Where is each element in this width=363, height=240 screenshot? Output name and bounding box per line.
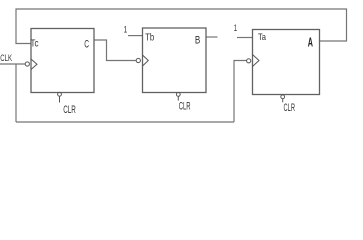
svg-text:CLK: CLK xyxy=(0,53,12,63)
svg-text:CLR: CLR xyxy=(63,104,76,116)
wire: constant 1 to U2 T input xyxy=(128,35,143,37)
clock bubble U2 xyxy=(136,58,140,62)
wire: constant 1 to U3 T input xyxy=(237,37,253,39)
flip-flop U1 (Tc) body xyxy=(31,29,94,93)
clear bubble U3 xyxy=(281,95,285,99)
svg-text:Tb: Tb xyxy=(145,33,154,44)
clear stem U2 xyxy=(177,96,179,100)
flip-flop U3 (Ta) body xyxy=(253,30,320,95)
svg-text:CLR: CLR xyxy=(179,101,191,113)
wire: feedback from A output to Tc input (top) xyxy=(16,9,347,44)
svg-text:C: C xyxy=(84,38,89,50)
svg-text:1: 1 xyxy=(124,25,128,35)
flip-flop U2 (Tb) body xyxy=(143,28,207,93)
svg-text:Ta: Ta xyxy=(258,32,267,43)
clock bubble U3 xyxy=(247,59,251,63)
clock edge triangle U3 xyxy=(253,55,260,67)
wire: CLK branch down to bottom bus xyxy=(15,64,17,122)
svg-text:B: B xyxy=(195,35,200,47)
clear stem U3 xyxy=(282,99,284,103)
svg-text:1: 1 xyxy=(234,23,237,33)
wire: bottom bus xyxy=(16,121,234,123)
wire: bus up to U3 clock xyxy=(234,61,247,123)
svg-text:Tc: Tc xyxy=(31,39,39,50)
svg-text:A: A xyxy=(308,34,314,49)
clock edge triangle U2 xyxy=(143,55,149,66)
clear bubble U2 xyxy=(176,93,180,97)
clock bubble U1 xyxy=(25,62,29,66)
clear stem U1 xyxy=(59,96,61,102)
wire: B output stub xyxy=(206,36,218,38)
wire: C output to U2 clock xyxy=(94,40,136,61)
wire: CLK input to U1 clock xyxy=(0,63,25,65)
svg-text:CLR: CLR xyxy=(284,102,296,114)
clock edge triangle U1 xyxy=(31,59,37,70)
clear bubble U1 xyxy=(58,92,62,96)
